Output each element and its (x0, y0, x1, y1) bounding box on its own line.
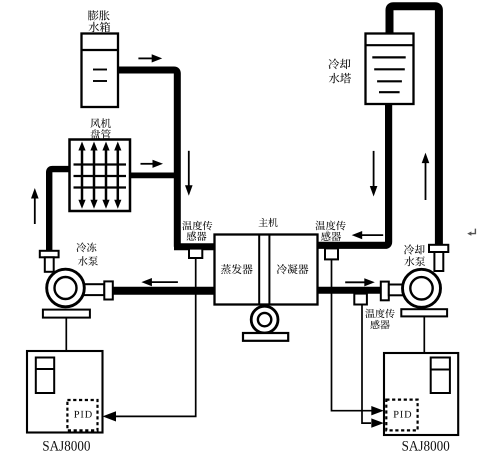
VFD left keypad (36, 358, 54, 394)
chiller main unit body (215, 235, 318, 305)
wire: sensor T2 signal down and right into PID of right drive (upper) (332, 259, 374, 410)
flow arrow: evaporator outlet (left) (150, 281, 178, 283)
temperature sensor T1 (chilled return) (189, 249, 202, 258)
label: expansion tank line2 (89, 22, 111, 32)
VFD drive right (SAJ8000) body (384, 353, 458, 435)
wire: sensor T1 signal down and left into PID of left drive (114, 258, 196, 416)
return mark (word artifact) (470, 229, 475, 234)
wire: cooling pump riser, top header pipe into cooling tower (390, 6, 439, 245)
wire: left drive output to chilled pump (65, 318, 67, 351)
flow arrow: tank outlet (right) (138, 57, 153, 59)
label: expansion tank line1 (88, 10, 110, 20)
label: sensor T1 line1 (182, 221, 212, 231)
flow arrow: fan coil outlet (right) (141, 163, 155, 165)
label: PID left (74, 411, 92, 418)
chiller divider strip (259, 235, 269, 305)
compressor circle under chiller (251, 306, 278, 333)
wire: evaporator outlet pipe to chilled pump inlet flange (113, 287, 216, 295)
VFD drive left (SAJ8000) body (27, 351, 103, 433)
flow arrow: tower downcomer (down) (373, 151, 375, 188)
wire: chilled return riser to evaporator inlet (174, 243, 216, 250)
label: condenser (277, 264, 309, 274)
cooling tower fill marks (372, 57, 405, 92)
compressor base plate (243, 333, 288, 341)
flow arrow: condenser outlet (right) (345, 281, 366, 283)
cooling tower body (366, 34, 414, 105)
expansion tank water level marks (93, 70, 107, 82)
cooling pump suction tube (434, 252, 443, 271)
flow arrow: chilled supply riser (up) (34, 197, 36, 225)
cooling pump top flange (429, 245, 448, 252)
label: sensor T1 line2 (187, 231, 207, 240)
label: evaporator (221, 264, 253, 274)
label: sensor T3 line2 (370, 320, 389, 329)
label: fan coil line2 (90, 129, 110, 139)
chilled pump suction tube (45, 257, 54, 272)
flow arrow: chilled return riser (down) (188, 151, 190, 187)
VFD right keypad (431, 358, 450, 394)
temperature sensor T2 (condenser inlet) (325, 248, 338, 259)
wire: cooling tower downcomer and condenser inlet pipe (316, 104, 389, 245)
VFD right PID block (386, 400, 417, 431)
cooling pump base (401, 309, 447, 316)
flow arrow: cooling pump riser (up) (425, 161, 427, 200)
label: sensor T2 line1 (316, 221, 346, 231)
cooling pump inlet tube (389, 285, 405, 296)
flow arrow: condenser inlet (left) (360, 234, 383, 236)
wire: condenser outlet pipe to cooling pump inlet flange (316, 287, 381, 294)
fan coil air-flow arrows (78, 142, 121, 209)
fan coil tube rows (74, 165, 127, 188)
cooling pump inlet flange (381, 282, 389, 301)
chilled pump discharge tube (82, 284, 104, 295)
label: SAJ8000 right (403, 441, 450, 451)
cooling pump volute (403, 269, 441, 307)
label: cooling pump line2 (404, 256, 425, 266)
label: chilled pump line2 (78, 256, 98, 266)
label: PID right (394, 411, 412, 418)
label: sensor T3 line1 (365, 309, 394, 318)
label: cooling tower line1 (328, 59, 350, 70)
chilled pump discharge flange (104, 281, 113, 299)
label: cooling tower line2 (329, 73, 351, 83)
chilled pump top flange (40, 251, 59, 257)
label: sensor T2 line2 (321, 232, 341, 242)
label: SAJ8000 left (43, 441, 90, 451)
VFD left PID block (67, 400, 97, 430)
temperature sensor T3 (condenser outlet) (354, 294, 367, 305)
wire: sensor T3 signal down and right into PID of right drive (lower) (362, 305, 371, 424)
label: chilled pump line1 (76, 242, 96, 252)
label: cooling pump line1 (404, 244, 425, 254)
wire: fan coil outlet stub to riser (130, 172, 177, 178)
chilled pump base (43, 310, 90, 318)
chilled pump volute (47, 269, 85, 307)
expansion tank body (82, 34, 119, 108)
wire: expansion tank outlet pipe to chilled-return riser (118, 70, 177, 247)
wire: fan coil inlet stub and left riser down to chilled pump (49, 169, 70, 251)
fan coil unit body (70, 140, 131, 212)
wire: right drive output to cooling pump (423, 316, 425, 353)
label: main unit (259, 218, 278, 227)
label: fan coil line1 (90, 118, 111, 128)
